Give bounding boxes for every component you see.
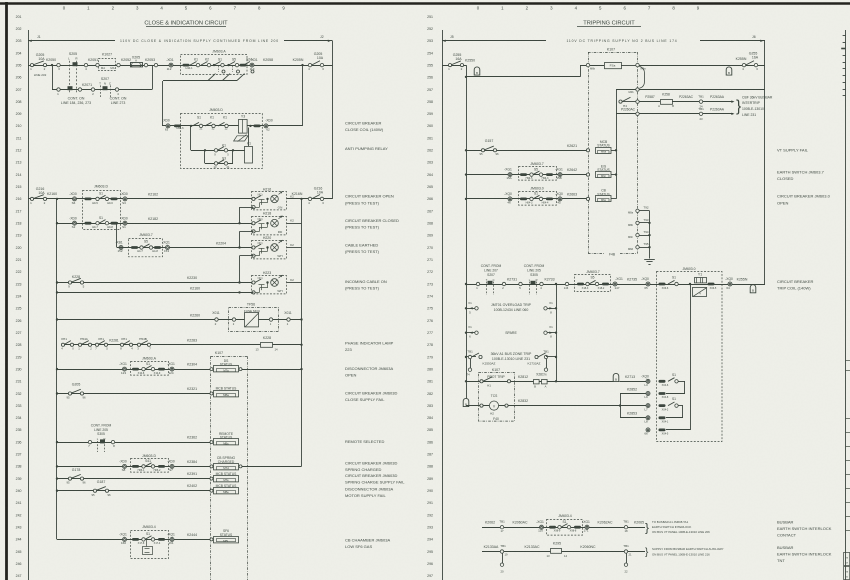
- wire test stub H216: [240, 207, 254, 209]
- fuse G205 left: [30, 53, 46, 77]
- terminal M4d: [636, 112, 639, 115]
- dash-dot cable K107 trip sheet: [588, 47, 638, 256]
- selector switch S207: [99, 77, 112, 97]
- terminal -XG1 15B: [555, 168, 563, 181]
- wire inner loop S3: [204, 149, 234, 163]
- left sheet column digits 0-9: [63, 6, 286, 11]
- label low sf6 gas: [345, 537, 390, 549]
- wire arrow P2263AA: [703, 95, 735, 103]
- fuse G255 right: [746, 51, 759, 71]
- label circuit breaker trip coil: [777, 279, 813, 291]
- wire row 257 intertrip feed: [616, 89, 765, 91]
- relay K1027: [96, 53, 120, 71]
- fuse link B right row 255: [726, 67, 732, 75]
- terminal -XQ0 L8 and oval: [644, 416, 669, 424]
- changeover S5 in JM603A: [223, 58, 240, 81]
- contact S1 aux L3: [668, 373, 678, 383]
- fuse monitor FSa: [605, 63, 636, 69]
- terminal -XG1 110: [536, 520, 544, 533]
- terminal M6b: [586, 63, 595, 70]
- dashed box JM603A close interlocks: [181, 50, 248, 75]
- wire row 205 main close supply rail: [28, 65, 333, 67]
- left bus of close sheet: [56, 199, 58, 539]
- right sheet column digits 0-9: [477, 6, 700, 11]
- page border left: [5, 2, 8, 580]
- selector S207 trip pole: [486, 278, 495, 295]
- terminal -XD0 S6: [69, 192, 77, 205]
- wire changeover rail to close coil: [162, 81, 164, 126]
- wire row 216 right: [287, 198, 333, 200]
- dashed box JM603.0 breaker aux: [519, 186, 557, 205]
- wire coil drop from row205: [302, 65, 304, 126]
- shunt X281: [534, 373, 548, 389]
- terminal TB1 17: [499, 519, 505, 533]
- terminal -XD0 S7: [167, 459, 175, 472]
- wire trip coil internal drop: [690, 284, 692, 430]
- node junction row205/207: [51, 64, 53, 66]
- wire row 279 bus zone trip right: [535, 349, 557, 376]
- wire test stub H220: [240, 255, 254, 257]
- selector switch S205: [68, 52, 78, 93]
- wire row 255 trip supply: [442, 65, 466, 67]
- terminal TB1 23: [698, 107, 704, 121]
- label circuit breaker close coil: [345, 121, 384, 133]
- node bus row240: [56, 490, 58, 492]
- terminal -XG1 123: [119, 362, 127, 375]
- wire row 279 bus zone trip left: [465, 349, 482, 376]
- contact H4 busbar intertrip: [619, 97, 636, 108]
- contact block oval H10-1: [183, 64, 194, 70]
- dashed box JM603D close coil: [181, 108, 263, 169]
- wire row 239 spring charge supply fail: [57, 478, 214, 480]
- table ticks bottom right: [846, 361, 850, 531]
- dash-dot box K107 prot trip: [479, 368, 515, 421]
- label spring charged: [345, 461, 397, 473]
- contact K216N: [292, 192, 312, 205]
- resistor K228: [255, 336, 278, 352]
- node bus row224: [56, 291, 58, 293]
- contact H54B: [137, 337, 151, 350]
- label cable earthed: [345, 242, 380, 254]
- title block stub bottom right: [844, 553, 850, 580]
- terminal 5 row273: [519, 282, 522, 290]
- node bus row281: [465, 380, 467, 382]
- wire row 264 earth switch closed: [466, 174, 587, 176]
- changeover S24 in JM603A: [237, 58, 254, 81]
- node trip coil junction: [689, 283, 691, 285]
- node test feed H223: [238, 291, 240, 293]
- supply rail 110V DC close & indication, line 203: [28, 35, 333, 43]
- contact K1 in JM603A: [190, 58, 200, 67]
- contact S5 earth aux trip: [577, 276, 609, 290]
- terminal 4 row273: [540, 282, 543, 290]
- contact S1 H9-7/H9-8: [85, 216, 118, 229]
- wire spring charged to lamp bus: [242, 466, 302, 468]
- label circuit breaker closed: [345, 218, 399, 230]
- contact H54A: [78, 337, 92, 350]
- contact K1 anti-pump: [214, 144, 229, 157]
- terminal 2 row273: [502, 282, 506, 290]
- terminal -XQ0 L3: [641, 374, 650, 387]
- connector X205: [131, 55, 143, 67]
- wire row 223 incoming cable on: [57, 282, 252, 284]
- fuse G216: [30, 187, 57, 205]
- fuse link B row283: [463, 398, 469, 406]
- right sheet title TRIPPING CIRCUIT: [577, 21, 641, 27]
- note cont. from line 205 S305: [91, 423, 112, 436]
- node bus row262: [465, 149, 467, 151]
- label disconnector open: [345, 366, 393, 378]
- node bus row218: [56, 222, 58, 224]
- wire drop row218 to row220: [116, 223, 118, 247]
- wire row 255 to right fuse: [639, 65, 765, 67]
- contact S1 in JM603D: [193, 116, 203, 131]
- contact XH1 pair a: [61, 337, 74, 350]
- terminal X011 1: [284, 311, 292, 326]
- terminal TB1 19/20: [500, 544, 508, 574]
- note supply from busbar earth switch: [652, 547, 724, 556]
- terminal T94: [628, 230, 649, 239]
- selector S305 trip pole: [529, 278, 538, 295]
- label circuit breaker open trip sheet: [777, 194, 831, 206]
- terminal inside TF56 right: [269, 318, 272, 326]
- contact S5 H4-7/H4-8: [131, 240, 161, 254]
- contact K1 second in JM603D: [218, 116, 228, 131]
- contact K205N: [293, 58, 312, 71]
- terminal 4 row 207: [115, 88, 119, 96]
- terminal -XG1 124: [167, 362, 175, 375]
- note cont from line 207 S207: [481, 264, 502, 277]
- sub-bus left x466 and x556: [556, 284, 558, 381]
- node lamp bus row228: [300, 344, 302, 346]
- fuse G205 right: [312, 52, 325, 71]
- node sub-bus row281: [555, 380, 557, 382]
- wire row 275 overload trip: [465, 301, 478, 315]
- terminal -XD0 62: [264, 119, 273, 132]
- node bus row273: [465, 283, 467, 285]
- contact G178: [66, 468, 86, 485]
- contact G187: [91, 480, 111, 497]
- contact block oval H04-6: [659, 380, 669, 387]
- wire test stub H223: [240, 292, 254, 294]
- left sheet title CLOSE & INDICATION CIRCUIT: [144, 21, 228, 27]
- terminal inside TF56 left: [232, 318, 235, 326]
- contact S1 JM603A aux: [132, 362, 165, 375]
- terminal -XD0 S2: [69, 217, 77, 230]
- contact K2 in JM603A: [201, 58, 211, 67]
- label busbar earth switch interlock tnt: [777, 545, 832, 563]
- node trip rail sub-bus: [555, 283, 557, 285]
- dashed box JM603A aux: [131, 356, 169, 375]
- contact block oval H10-4: [240, 64, 247, 67]
- right sheet row numbers 251-297: [427, 15, 433, 578]
- wire row 230 disconnector open status: [57, 369, 214, 371]
- contact K2050: [46, 58, 60, 71]
- contact S41: [132, 459, 165, 472]
- node TCS split: [619, 404, 621, 406]
- wire status row264 to bus: [615, 173, 617, 175]
- terminal -XD0 S1: [120, 217, 128, 230]
- dashed box JM603D spring contact: [131, 454, 169, 472]
- wire row 240 motor supply fail: [57, 490, 214, 492]
- terminal -XQ1 161: [167, 532, 175, 545]
- terminal -XQ1 153: [162, 241, 170, 254]
- ground symbol: [644, 260, 655, 265]
- wire test chain H218-H220: [239, 231, 241, 247]
- node coil output: [249, 125, 251, 127]
- selector S305 pole: [88, 437, 115, 452]
- contact K1 first in JM603D: [205, 116, 215, 131]
- selector S205 second pole: [68, 86, 73, 90]
- label incoming cable on: [345, 279, 387, 291]
- contact block oval H06-6: [659, 283, 669, 290]
- contact block oval H96-1: [254, 125, 261, 128]
- wire row 277 spare right: [544, 325, 557, 339]
- wire row 277 spare left: [465, 325, 478, 339]
- right bus J6 of trip sheet: [764, 41, 766, 284]
- wire row 275 right arrow: [544, 301, 557, 315]
- node bus row236: [56, 441, 58, 443]
- trip coil Y1: [693, 272, 708, 296]
- wire anti-pump loop: [191, 126, 245, 151]
- wire K2853 branch: [620, 412, 646, 418]
- contact block oval H06-5: [708, 283, 717, 290]
- fold ticks top right: [841, 36, 845, 96]
- terminal -XD0 S3: [120, 192, 128, 205]
- node bus row238: [56, 465, 58, 467]
- terminal M6a: [636, 63, 646, 70]
- contact S1 trip coil: [668, 276, 678, 286]
- anti pumping relay K1 coil: [245, 128, 253, 163]
- wire row 262 vt supply fail: [466, 150, 587, 152]
- terminal -XG1 147: [613, 277, 623, 290]
- resistor block TF56: [245, 313, 260, 328]
- terminal M7b: [480, 404, 483, 407]
- wire test chain H216-H218: [239, 207, 241, 223]
- wire row 226 phase indicator feed: [57, 319, 302, 321]
- left sheet row numbers 201-247: [16, 15, 22, 578]
- contact G205 aux 95-96: [66, 383, 86, 400]
- left bus of trip sheet: [466, 77, 468, 406]
- pressure switch symbol: [143, 539, 153, 554]
- wire loop L3 to L9: [666, 381, 685, 393]
- wire label P2263AC: [672, 95, 699, 101]
- dashed box JM603.7 earth aux trip: [575, 270, 611, 292]
- resistor K295: [546, 541, 567, 558]
- lamp unit H218: [252, 212, 302, 235]
- wire jog row 255 to 256: [466, 65, 604, 77]
- wire row 224 lamp test feed: [57, 292, 252, 294]
- wire row 207 selector branch: [52, 65, 153, 89]
- contact G157: [479, 139, 499, 156]
- fuse link B row281: [613, 373, 619, 381]
- lamp unit H220: [252, 236, 302, 259]
- wire DS status to lamp bus: [242, 369, 302, 371]
- wire loop L7 to L8: [666, 406, 683, 418]
- supply rail 110V DC tripping no 2 bus, line 253: [442, 35, 765, 43]
- wire row 238 spring charged: [57, 466, 214, 468]
- lamp unit H216: [252, 187, 302, 210]
- note cont from line 205 S305: [524, 264, 545, 277]
- wire earth collector: [648, 211, 650, 259]
- terminal -XQ0 46: [504, 192, 512, 205]
- dashed box JM603.4 interlock aux: [547, 514, 583, 535]
- terminal TB1 24: [698, 95, 704, 109]
- contact S1 breaker aux: [520, 192, 553, 205]
- dashed box JM603.0 trip coil: [657, 267, 723, 441]
- lamp unit H223: [252, 271, 302, 294]
- label phase indicator lamp: [345, 340, 394, 352]
- wire row 283 TCS: [466, 405, 620, 407]
- node anti-pump loop top left: [190, 125, 192, 127]
- wire row283 to L7: [620, 405, 646, 407]
- wire TCS branch vertical: [620, 393, 622, 417]
- contact XH1 pair c: [120, 337, 133, 350]
- contact PROT TRIP H1: [480, 375, 511, 388]
- contact S3: [214, 156, 230, 169]
- terminal T95: [628, 242, 650, 251]
- contact S1 interlock: [549, 520, 581, 533]
- wire row 216 circuit breaker open: [28, 198, 252, 200]
- label close supply fail: [345, 390, 397, 402]
- terminal T92: [628, 206, 650, 215]
- wire test chain H220-H223: [239, 256, 241, 283]
- node row205 to coil drop: [301, 64, 303, 66]
- note cont. on line 184,236,273: [61, 96, 91, 104]
- wire status row262 to bus: [615, 150, 618, 152]
- wire row 244 low SF6 gas: [57, 539, 214, 541]
- note bus zone trip: [483, 352, 541, 366]
- wire row 281 prot trip: [466, 381, 613, 383]
- wire row 258 P2587: [639, 95, 660, 101]
- terminal -XB1 152: [115, 241, 123, 254]
- terminal -XD1 112: [166, 58, 174, 71]
- terminal M4b: [628, 88, 639, 94]
- contact S1 gas: [132, 532, 165, 545]
- label earth switch closed: [777, 169, 825, 181]
- wire row 273 trip rail: [466, 284, 765, 286]
- terminal M4a: [636, 100, 639, 103]
- left sheet border: [28, 30, 30, 580]
- contact K2071: [78, 83, 94, 96]
- terminal -XQ0 45: [555, 192, 563, 205]
- wire row 259 P2260AC: [616, 108, 699, 114]
- label motor supply fail: [345, 486, 393, 498]
- terminal -XQ1 160: [119, 532, 127, 545]
- wire curved jog to row 257: [639, 66, 645, 88]
- wire row 210 close coil: [162, 125, 303, 127]
- node bus row226: [56, 318, 58, 320]
- voltmeter TCS: [489, 394, 508, 415]
- terminal 1 row 207: [57, 88, 60, 96]
- contact XH1 pair b: [95, 337, 119, 350]
- terminal T93: [628, 218, 650, 227]
- contact block oval H04-2: [659, 404, 669, 411]
- lamp return bus: [301, 199, 303, 467]
- node bus row266: [465, 198, 467, 200]
- terminal 146 row273: [564, 282, 569, 290]
- label circuit breaker open: [345, 194, 394, 206]
- note CBF busbar intertrip: [742, 95, 773, 116]
- terminal -XD0 S8: [119, 459, 127, 472]
- terminal -XQ0 66 and oval: [644, 428, 690, 436]
- fuse G255: [448, 53, 475, 71]
- dashed box JM603.7 earth switch aux: [129, 233, 163, 257]
- contact S1 H9-5/H9-6: [85, 192, 118, 205]
- terminal TB1 21/22: [623, 544, 632, 574]
- label busbar earth switch interlock contact: [777, 519, 832, 537]
- right sheet left border: [442, 30, 444, 580]
- node bus row230: [56, 368, 58, 370]
- contact K2053: [144, 58, 157, 67]
- contact S5 trip aux: [520, 167, 553, 180]
- changeover S1 in JM603A: [208, 58, 225, 81]
- dashed box JM603D aux contacts: [83, 185, 121, 230]
- dash box TF56 fuse unit: [229, 303, 279, 332]
- node lamp bus row216: [300, 198, 302, 200]
- wire row281 to XQ0 L3: [620, 381, 647, 383]
- wire row 236 remote selected: [57, 442, 214, 444]
- dashed box JM603.4 gas contact: [131, 525, 169, 558]
- terminal TB1 18: [623, 519, 629, 533]
- wire row 220 cable earthed: [117, 247, 252, 249]
- right sheet right border: [845, 30, 847, 580]
- contact K255N right: [736, 57, 747, 71]
- changeover rail under JM603A: [163, 80, 237, 82]
- wire arrow P2260AA: [703, 108, 735, 115]
- dash-dot cable K107 left sheet: [211, 351, 248, 580]
- terminal -XG1 15A: [504, 168, 512, 181]
- wire row 218 circuit breaker closed: [57, 223, 252, 225]
- node bus row264: [465, 173, 467, 175]
- terminal X011 2: [212, 311, 220, 326]
- terminal 1 row273: [476, 282, 480, 290]
- fuse G216 right: [312, 186, 325, 205]
- contact K2051: [84, 58, 98, 71]
- note JMT01 overload trip: [491, 303, 532, 312]
- note cont. on line 273: [110, 96, 127, 104]
- terminal -XQ0 L9 and oval: [644, 392, 669, 400]
- node bus row239: [56, 477, 58, 479]
- dashed box JM603.7 trip aux: [519, 162, 557, 180]
- terminal -XQ0 L7: [644, 404, 650, 412]
- contact K228: [68, 275, 85, 289]
- node bus row223: [56, 281, 58, 283]
- fuse link B left trip: [474, 67, 480, 75]
- terminal -XD1 113: [250, 58, 258, 71]
- right bus J2 of left sheet: [332, 41, 334, 199]
- contact S1 aux L7: [668, 397, 678, 407]
- terminal -XD0 63: [162, 119, 170, 132]
- page border top: [0, 2, 850, 5]
- wire row 232 close supply fail: [57, 393, 214, 395]
- wire row 293 earth switch interlock: [482, 527, 645, 529]
- wire row 228 phase indicator lamp: [62, 344, 302, 346]
- resistor K258: [658, 92, 674, 108]
- node lamp bus row230: [300, 368, 302, 370]
- node row218 drop to 220: [116, 222, 118, 224]
- note to busbar A1 interlock: [652, 520, 710, 534]
- wire K2852 branch: [620, 387, 646, 393]
- node bus row216: [56, 198, 58, 200]
- close coil Y3: [234, 114, 248, 141]
- wire row 295 interlock supply: [482, 551, 645, 553]
- node lamp bus row226: [300, 318, 302, 320]
- fuse link B trip coil: [750, 285, 756, 293]
- node bus row232: [56, 392, 58, 394]
- status return bus trip sheet: [616, 89, 618, 198]
- terminal -XQ0 65: [641, 277, 650, 290]
